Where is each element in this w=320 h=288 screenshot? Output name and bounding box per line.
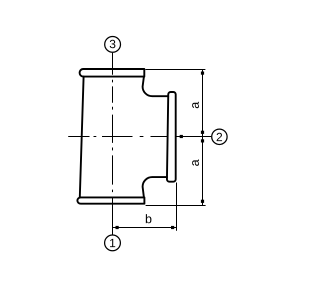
- horizontal centerline dot 2: [140, 136, 144, 138]
- dim dot top of a: [201, 72, 204, 75]
- branch socket bead (right outlet): [167, 92, 176, 182]
- extension line from branch face (for b): [176, 183, 178, 231]
- horizontal centerline dash 1: [68, 136, 89, 138]
- horizontal centerline dot 1: [94, 136, 97, 138]
- horizontal centerline dash 2: [102, 136, 133, 138]
- dimension line b (horizontal): [113, 227, 177, 229]
- vertical centerline dash 3: [112, 155, 114, 184]
- svg-text:b: b: [145, 212, 152, 226]
- vertical centerline dash 1: [112, 86, 114, 102]
- balloon callout 2 circle: [212, 129, 227, 144]
- vertical centerline dash 2: [112, 115, 114, 143]
- body left wall (tapered): [80, 77, 84, 198]
- extension line from top flange corner: [145, 69, 205, 71]
- dim dot above centerline: [201, 131, 204, 134]
- svg-text:1: 1: [109, 236, 116, 250]
- dim dot below centerline: [201, 139, 204, 142]
- top socket flange (bead) of tee run: [80, 69, 145, 77]
- dimension line a+a (vertical): [202, 70, 204, 206]
- dim dot bottom of a: [201, 200, 204, 203]
- dim dot right of b: [171, 226, 174, 229]
- dim dot left of b: [116, 226, 119, 229]
- vertical centerline dot 2: [112, 107, 114, 110]
- body right wall lower + fillet into branch bottom wall: [143, 177, 167, 197]
- balloon 2 leader (solid segment): [177, 136, 212, 138]
- bottom socket flange (bead) of tee run: [77, 197, 144, 203]
- balloon callout 3 circle: [105, 37, 121, 53]
- vertical centerline dot 1: [112, 80, 114, 83]
- extension line from bottom flange corner: [146, 205, 206, 207]
- body right wall upper + fillet into branch top wall: [143, 77, 169, 97]
- svg-text:a: a: [188, 159, 202, 166]
- svg-text:a: a: [188, 102, 202, 109]
- horizontal centerline dash 3: [151, 136, 168, 138]
- balloon callout 1 circle: [105, 235, 121, 251]
- svg-text:2: 2: [216, 130, 223, 144]
- vertical centerline dot 4: [112, 190, 114, 193]
- vertical centerline dot 3: [112, 148, 114, 151]
- vertical centerline solid leader to balloon 3: [112, 53, 114, 75]
- leader dot at branch face: [180, 135, 183, 138]
- svg-text:3: 3: [109, 37, 116, 51]
- vertical centerline solid leader to balloon 1: [112, 197, 114, 235]
